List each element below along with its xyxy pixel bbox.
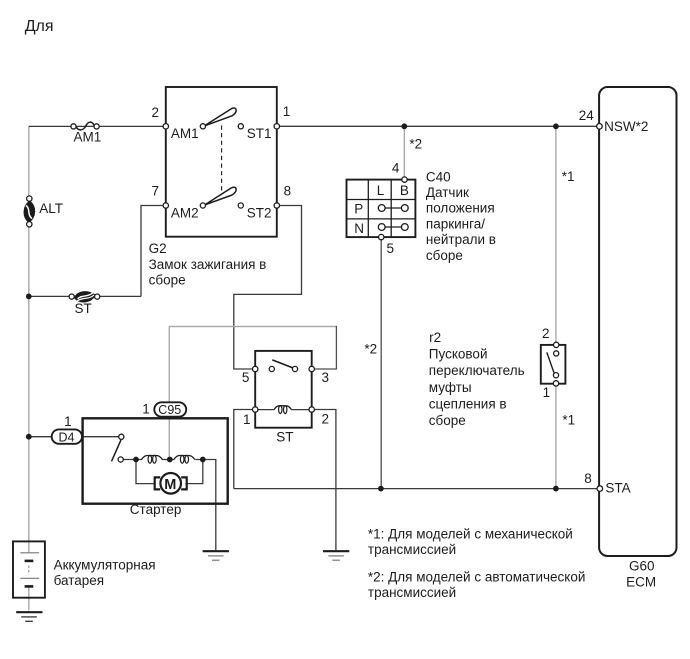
terminal 1 [553, 381, 558, 386]
terminal 1 [253, 407, 258, 412]
ground relay coil [323, 551, 349, 560]
node solenoid left [133, 457, 139, 463]
node junction STA-C40 [378, 486, 384, 492]
N row contacts [382, 226, 405, 228]
svg-text:*1: Для моделей с механической: *1: Для моделей с механической [368, 526, 573, 541]
svg-text:C95: C95 [158, 403, 181, 417]
mechanical link dashed [221, 126, 223, 192]
contact ST2 [238, 203, 243, 208]
starter relay ST [242, 351, 329, 445]
terminal 4 [402, 177, 407, 182]
fusible link ALT [24, 196, 63, 227]
wire starter ground [203, 460, 216, 551]
starter assembly [83, 418, 228, 517]
svg-text:Для: Для [25, 18, 54, 35]
terminal 5 [379, 234, 384, 239]
relay contact right [292, 366, 297, 371]
svg-text:N: N [354, 221, 364, 236]
wire relay coil t1 to STA [234, 410, 255, 489]
svg-text:P: P [354, 201, 363, 216]
svg-text:трансмиссией: трансмиссией [368, 585, 456, 600]
wire relay t3 riser [312, 326, 337, 369]
contact AM2 [200, 203, 205, 208]
terminal 1 [274, 124, 279, 129]
relay contact left [269, 366, 274, 371]
svg-text:*1: *1 [562, 169, 575, 184]
svg-text:2: 2 [152, 105, 160, 120]
svg-text:паркинга/: паркинга/ [426, 216, 485, 231]
starter switch blade [112, 440, 122, 461]
starter switch contact lower [118, 457, 123, 462]
node junction NSW-C40 [401, 123, 407, 129]
wire terminal7 feed [141, 206, 166, 297]
node junction NSW-clutch [553, 123, 559, 129]
svg-text:C40: C40 [426, 169, 451, 184]
wire clutch switch upper [555, 126, 557, 345]
svg-text:24: 24 [579, 108, 595, 123]
svg-text:AM1: AM1 [74, 129, 102, 144]
svg-text:*2: *2 [364, 342, 377, 357]
svg-text:ECM: ECM [626, 575, 656, 590]
wire starter solenoid row [121, 459, 203, 461]
fuse AM1 [71, 122, 101, 144]
wire D4 row [29, 436, 119, 438]
lever AM2 [204, 187, 236, 205]
svg-text:1: 1 [243, 412, 251, 427]
wire C40 pin4 branch [403, 126, 405, 179]
svg-text:G2: G2 [149, 241, 167, 256]
svg-text:ST1: ST1 [247, 126, 272, 141]
svg-text:*2: Для моделей с автоматическ: *2: Для моделей с автоматической [368, 569, 586, 584]
svg-text:L: L [377, 183, 385, 198]
relay coil [255, 409, 274, 411]
solenoid coil 2 [174, 456, 195, 460]
svg-text:ALT: ALT [39, 201, 63, 216]
svg-text:ST2: ST2 [247, 205, 272, 220]
park/neutral position switch C40 [347, 137, 496, 263]
svg-text:3: 3 [322, 370, 330, 385]
clutch blade [547, 352, 555, 373]
svg-text:AM1: AM1 [171, 126, 199, 141]
svg-text:M: M [164, 477, 176, 493]
svg-text:трансмиссией: трансмиссией [368, 542, 456, 557]
clutch start switch r2 [364, 169, 575, 428]
svg-text:STA: STA [605, 481, 630, 496]
solenoid coil 1 [142, 456, 163, 460]
svg-text:сборе: сборе [429, 413, 466, 428]
svg-text:AM2: AM2 [171, 205, 199, 220]
lever AM1 [204, 108, 236, 126]
svg-text:ST: ST [75, 301, 92, 316]
wire terminal8 to relay t5 [234, 206, 302, 370]
svg-text:1: 1 [283, 104, 291, 119]
wire battery feed vertical [28, 126, 30, 552]
svg-text:2: 2 [542, 326, 550, 341]
svg-text:переключатель: переключатель [429, 363, 525, 378]
wire STA row [234, 488, 600, 490]
clutch contact upper [554, 351, 559, 356]
svg-text:сборе: сборе [149, 273, 186, 288]
pin 24 NSW [597, 124, 603, 130]
wire relay t3 to starter C95 [169, 327, 336, 459]
footnotes [368, 526, 586, 600]
wire motor loop [136, 460, 203, 484]
terminal 2 [309, 407, 314, 412]
svg-text:B: B [400, 183, 409, 198]
ECM G60 [579, 87, 677, 590]
connector C95 [142, 402, 186, 418]
ground starter [203, 551, 229, 560]
svg-text:ST: ST [276, 430, 293, 445]
svg-text:D4: D4 [59, 430, 75, 444]
terminal 2 [554, 342, 559, 347]
motor M [160, 473, 181, 494]
terminal 7 [163, 203, 168, 208]
wire relay coil t2 to ground [312, 410, 336, 551]
svg-text:7: 7 [152, 184, 160, 199]
fusible link ST [69, 291, 100, 315]
P row contacts [382, 207, 405, 209]
wire NSW row [277, 125, 600, 127]
pin 8 STA [597, 486, 603, 492]
ignition switch G2 [149, 87, 292, 288]
svg-text:4: 4 [392, 160, 400, 175]
wire clutch switch lower [555, 383, 557, 488]
svg-text:2: 2 [322, 412, 330, 427]
contact AM1 [200, 124, 205, 129]
svg-text:8: 8 [284, 184, 292, 199]
terminal 2 [163, 124, 168, 129]
node junction battery-D4 [26, 434, 32, 440]
starter switch contact upper [119, 434, 124, 439]
svg-text:Датчик: Датчик [426, 185, 469, 200]
svg-text:сцепления в: сцепления в [429, 397, 507, 412]
svg-text:1: 1 [64, 414, 72, 429]
wire ST fuse row [29, 295, 141, 297]
svg-text:8: 8 [584, 471, 592, 486]
svg-text:*2: *2 [409, 137, 422, 152]
ground battery [16, 612, 42, 621]
svg-text:1: 1 [543, 385, 551, 400]
wire C40 pin5 to STA [380, 237, 382, 489]
svg-text:нейтрали в: нейтрали в [426, 232, 496, 247]
svg-text:Пусковой: Пусковой [429, 346, 488, 361]
contact ST1 [238, 124, 243, 129]
node solenoid middle [167, 457, 173, 463]
svg-text:положения: положения [426, 201, 495, 216]
svg-text:NSW*2: NSW*2 [604, 119, 648, 134]
terminal 3 [309, 366, 314, 371]
relay blade [272, 360, 294, 368]
node junction battery-ST fuse [26, 294, 32, 300]
svg-text:сборе: сборе [426, 248, 463, 263]
clutch contact lower [553, 373, 558, 378]
node junction STA-clutch [553, 486, 559, 492]
svg-text:5: 5 [387, 241, 395, 256]
node solenoid right [200, 457, 206, 463]
battery [13, 541, 156, 597]
svg-text:муфты: муфты [429, 380, 472, 395]
terminal 8 [274, 203, 279, 208]
svg-text:Аккумуляторная: Аккумуляторная [54, 557, 156, 572]
svg-text:5: 5 [242, 370, 250, 385]
wire battery to ground [28, 586, 30, 610]
wire AM1 row [29, 125, 166, 127]
svg-text:Замок зажигания в: Замок зажигания в [149, 257, 267, 272]
svg-text:Стартер: Стартер [130, 502, 182, 517]
terminal 5 [253, 366, 258, 371]
connector D4 [52, 414, 82, 444]
svg-text:r2: r2 [429, 330, 441, 345]
svg-text:G60: G60 [629, 558, 655, 573]
svg-text:*1: *1 [562, 413, 575, 428]
svg-text:батарея: батарея [54, 573, 105, 588]
svg-text:1: 1 [142, 402, 150, 417]
